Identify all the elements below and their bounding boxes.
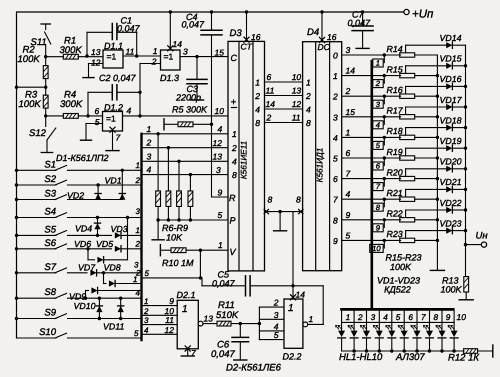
switch S9 xyxy=(17,318,57,320)
ground R13 xyxy=(459,299,473,301)
switch S6 xyxy=(17,248,57,250)
wire D2.1 pin13 output xyxy=(198,321,203,326)
wire R10 node down to net5 wire xyxy=(199,250,201,278)
decoder D4 K561ID1 box xyxy=(303,42,342,271)
svg-text:S9: S9 xyxy=(44,308,56,319)
node VD19 cathode to output bus xyxy=(464,147,467,150)
node R20 to ground bus xyxy=(436,177,439,180)
node VD22 cathode to output bus xyxy=(464,208,467,211)
svg-text:1: 1 xyxy=(306,77,311,87)
svg-text:S3: S3 xyxy=(44,189,56,200)
svg-text:10: 10 xyxy=(457,312,467,322)
svg-text:300K: 300K xyxy=(60,99,83,110)
ground resistor bus xyxy=(430,269,444,271)
svg-text:6: 6 xyxy=(267,72,272,82)
svg-text:4: 4 xyxy=(147,165,152,175)
svg-text:+Uп: +Uп xyxy=(412,9,434,21)
svg-text:100K: 100K xyxy=(18,54,41,65)
tag box 8 into bundle xyxy=(383,199,385,207)
wire P input common to D3 pin5 xyxy=(158,219,228,221)
wire D2.2 input pin4 xyxy=(259,330,284,332)
svg-text:2: 2 xyxy=(135,176,141,185)
resistor R6 10K xyxy=(157,134,159,191)
svg-text:3: 3 xyxy=(274,310,279,320)
svg-text:S5: S5 xyxy=(44,224,56,235)
svg-text:8: 8 xyxy=(433,313,438,322)
svg-text:КД522: КД522 xyxy=(384,285,411,295)
svg-text:6: 6 xyxy=(333,174,338,184)
node VD21 cathode to output bus xyxy=(464,188,467,191)
svg-text:9: 9 xyxy=(446,313,451,322)
node VD11 S9 tap xyxy=(119,317,122,320)
svg-text:VD10: VD10 xyxy=(74,301,96,311)
ground D1.2 pin5 xyxy=(81,139,92,141)
svg-text:4: 4 xyxy=(218,124,223,134)
tag box 2 into bundle xyxy=(383,76,385,84)
svg-text:4: 4 xyxy=(232,157,237,167)
node R16 to ground bus xyxy=(436,95,439,98)
node S8 VD9 branch xyxy=(84,297,87,300)
svg-text:VD14: VD14 xyxy=(440,33,462,43)
svg-text:2: 2 xyxy=(357,313,363,322)
node VD17 cathode to output bus xyxy=(464,105,467,108)
capacitor C4 0,047 xyxy=(211,12,213,30)
svg-text:4: 4 xyxy=(127,106,132,116)
node row6 tag junction xyxy=(383,156,386,159)
wire D3 out1 pin6 to D4 pin10 xyxy=(265,81,303,83)
svg-text:R12 1К: R12 1К xyxy=(448,353,480,364)
svg-text:5: 5 xyxy=(396,313,401,322)
LED HL6 AL307 xyxy=(403,322,405,330)
node row4 tag junction xyxy=(383,115,386,118)
node rail junction D3 pin16 xyxy=(245,10,248,13)
LED HL2 AL307 xyxy=(353,322,355,330)
dynamic marker D4 pin16 xyxy=(319,37,324,42)
wire +Un top power rail xyxy=(17,11,405,13)
svg-text:6: 6 xyxy=(408,313,413,322)
capacitor C1 0,047 feedback xyxy=(86,32,88,56)
wire diode cathode output bus xyxy=(465,45,467,276)
node frame bus tap xyxy=(15,86,18,89)
switch S7 xyxy=(17,272,57,274)
svg-text:4: 4 xyxy=(333,133,338,143)
svg-text:4: 4 xyxy=(376,120,380,129)
svg-text:2: 2 xyxy=(151,57,157,67)
node S2 VD2 tap xyxy=(96,183,99,186)
gate D2.1 K561LE6 xyxy=(177,300,198,349)
svg-text:5: 5 xyxy=(145,269,150,278)
bus bundle horizontal bar xyxy=(342,308,454,311)
ground C3 xyxy=(191,99,204,101)
resistor R7 10K xyxy=(167,148,169,191)
svg-text:10: 10 xyxy=(372,244,381,253)
svg-text:2: 2 xyxy=(146,138,152,148)
svg-text:1: 1 xyxy=(309,314,314,324)
svg-text:1: 1 xyxy=(182,304,188,315)
node C3 tap xyxy=(195,55,198,58)
tag box 10 into bundle xyxy=(383,240,385,248)
counter D3 K561IE11 box xyxy=(228,41,265,271)
node R23 to ground bus xyxy=(436,239,439,242)
node R21 to ground bus xyxy=(436,198,439,201)
node row2 tag junction xyxy=(383,74,386,77)
terminal +Un xyxy=(404,9,409,14)
svg-text:1: 1 xyxy=(346,313,351,322)
wire D2.1 input pin11 from net 3 xyxy=(142,324,178,326)
svg-text:К561ИЕ11: К561ИЕ11 xyxy=(239,141,248,179)
svg-text:11: 11 xyxy=(292,112,301,122)
svg-text:=1: =1 xyxy=(106,114,116,124)
wire D2.1 input pin12 from net 4 xyxy=(142,333,178,335)
node VD10 S9 tap xyxy=(98,317,101,320)
ground D1.2 pin7 xyxy=(106,150,119,152)
node row3 tag junction xyxy=(383,95,386,98)
wire D1.3 pin3 output to D3 C xyxy=(180,56,228,58)
wire LED cathode rail xyxy=(342,350,464,352)
ground R6-R9 common xyxy=(157,220,159,239)
dynamic marker D1.2 pin7 xyxy=(110,127,115,132)
node VD15 cathode to output bus xyxy=(464,64,467,67)
node S8 bus tap xyxy=(15,297,18,300)
node rail junction C7 xyxy=(361,10,364,13)
resistor R9 10K xyxy=(189,175,191,191)
svg-text:1: 1 xyxy=(136,161,140,170)
node R5 to C4 column xyxy=(210,123,213,126)
LED HL3 AL307 xyxy=(366,322,368,330)
svg-text:16: 16 xyxy=(251,32,261,42)
svg-text:0: 0 xyxy=(333,51,338,61)
svg-text:12: 12 xyxy=(91,58,101,68)
svg-text:VD5: VD5 xyxy=(96,239,113,249)
svg-text:13: 13 xyxy=(213,152,223,162)
svg-text:C2 0,047: C2 0,047 xyxy=(99,73,137,83)
svg-text:VD1: VD1 xyxy=(105,176,122,186)
svg-text:2: 2 xyxy=(345,86,351,96)
node VD18 cathode to output bus xyxy=(464,126,467,129)
svg-text:8: 8 xyxy=(268,195,273,205)
node R1-S11-R2 junction xyxy=(44,55,47,58)
svg-text:VD21: VD21 xyxy=(440,177,462,187)
wire D3 pin16 from rail xyxy=(246,12,248,41)
svg-text:3: 3 xyxy=(183,47,188,57)
svg-text:3: 3 xyxy=(371,313,376,322)
wire R input D3 pin9 xyxy=(212,196,229,198)
svg-text:D4: D4 xyxy=(307,27,319,38)
svg-text:2: 2 xyxy=(135,239,141,248)
svg-text:0,047: 0,047 xyxy=(212,279,236,289)
svg-text:11: 11 xyxy=(165,315,174,325)
svg-text:4: 4 xyxy=(346,189,351,199)
svg-text:4: 4 xyxy=(383,313,388,322)
svg-text:4: 4 xyxy=(144,326,149,335)
svg-text:S10: S10 xyxy=(39,327,57,338)
svg-text:R6-R9: R6-R9 xyxy=(162,223,188,233)
node C2 right to D1.2 out net xyxy=(138,91,141,94)
gate D2.2 K561LE6 xyxy=(284,299,303,348)
svg-text:3: 3 xyxy=(147,151,152,161)
svg-text:15: 15 xyxy=(215,48,225,58)
svg-text:VD9: VD9 xyxy=(69,291,86,301)
node S3 bus tap xyxy=(15,198,18,201)
svg-text:VD17: VD17 xyxy=(440,95,463,105)
svg-text:R15-R23: R15-R23 xyxy=(385,253,421,263)
svg-text:1: 1 xyxy=(346,127,351,137)
svg-text:11: 11 xyxy=(126,47,135,57)
LED HL5 AL307 xyxy=(391,322,393,330)
node Un junction xyxy=(464,243,467,246)
wire D2.2 feedback loop xyxy=(322,286,324,325)
wire D3 out8 pin2 to D4 pin11 xyxy=(265,122,303,124)
svg-text:2: 2 xyxy=(231,143,237,153)
wire weight net 2 to D3 pin12 xyxy=(142,147,229,149)
LED HL10 AL307 xyxy=(453,322,455,330)
node ground tap xyxy=(278,210,281,213)
svg-text:11: 11 xyxy=(266,85,275,95)
svg-text:0,047: 0,047 xyxy=(211,349,235,360)
node S2 bus tap xyxy=(15,183,18,186)
svg-text:VD3: VD3 xyxy=(111,224,128,234)
op-amp gate D1.2 K561LP2 xyxy=(103,112,123,132)
node VD23 cathode to output bus xyxy=(464,229,467,232)
node S7 branch xyxy=(102,271,105,274)
node D1.1 out junction xyxy=(135,54,138,57)
svg-text:R5 300K: R5 300K xyxy=(172,105,208,115)
node R19 to ground bus xyxy=(436,156,439,159)
svg-text:S6: S6 xyxy=(44,238,56,249)
LED HL4 AL307 xyxy=(378,322,380,330)
node R11 to C6 xyxy=(239,322,242,325)
op-amp gate D1.3 K561LP2 xyxy=(161,50,181,70)
wire D1.2 out to D3 pin10 xyxy=(140,115,228,117)
svg-text:S7: S7 xyxy=(44,262,56,273)
wire frame to R2/R3 node xyxy=(17,86,46,88)
svg-text:3: 3 xyxy=(216,165,221,175)
node row10 tag junction xyxy=(383,239,386,242)
svg-text:5: 5 xyxy=(134,329,139,338)
terminal R12 right xyxy=(492,345,494,357)
svg-text:16: 16 xyxy=(327,32,337,42)
svg-text:8: 8 xyxy=(306,118,311,128)
LED HL7 AL307 xyxy=(416,322,418,330)
svg-text:HL1-HL10: HL1-HL10 xyxy=(339,352,383,363)
switch S2 xyxy=(17,184,57,186)
node rail junction D1.3 pin14 xyxy=(169,10,172,13)
svg-text:7: 7 xyxy=(333,195,338,205)
svg-text:2: 2 xyxy=(332,92,338,102)
bus matrix bundle vertical xyxy=(140,134,142,340)
capacitor C6 0,047 xyxy=(239,324,241,338)
diode VD6 KD522 branch wire xyxy=(87,249,89,260)
wire D1.2 pin4 output xyxy=(123,115,141,117)
svg-text:R10 1M: R10 1M xyxy=(162,258,194,268)
tag cells 1-10 at LEDs xyxy=(342,321,455,323)
svg-text:1: 1 xyxy=(218,240,223,250)
svg-text:8: 8 xyxy=(333,215,338,225)
svg-text:2: 2 xyxy=(254,91,260,101)
wire left frame bus xyxy=(16,12,18,338)
node R10 output junction xyxy=(199,249,202,252)
node S9 bus tap xyxy=(15,317,18,320)
terminal Un output xyxy=(466,244,482,246)
svg-text:=1: =1 xyxy=(107,52,117,62)
svg-text:1: 1 xyxy=(232,129,237,139)
capacitor C3 2200p xyxy=(196,57,198,79)
svg-text:13: 13 xyxy=(292,85,302,95)
svg-text:1: 1 xyxy=(153,46,158,56)
svg-text:12: 12 xyxy=(292,99,302,109)
node VD11 top tap xyxy=(119,297,122,300)
switch S1 xyxy=(17,169,57,171)
svg-text:3: 3 xyxy=(144,316,149,325)
dynamic marker D2.1 pin7 xyxy=(185,346,190,351)
svg-text:13: 13 xyxy=(91,47,101,57)
dynamic marker D3 pin16 xyxy=(244,37,249,42)
svg-text:S2: S2 xyxy=(44,174,56,185)
switch S8 xyxy=(17,297,57,299)
svg-text:4: 4 xyxy=(306,104,311,114)
wire D2.1 input pin10 from net 2 xyxy=(142,314,178,316)
svg-text:10: 10 xyxy=(215,106,225,116)
wire D1.2 pin7 xyxy=(112,131,114,150)
svg-text:14: 14 xyxy=(173,39,183,49)
svg-text:7: 7 xyxy=(116,133,121,143)
node R22 to ground bus xyxy=(436,218,439,221)
node R2-R3 junction xyxy=(44,86,47,89)
svg-text:100K: 100K xyxy=(390,262,412,272)
svg-text:D3: D3 xyxy=(230,28,243,39)
svg-text:CT: CT xyxy=(241,42,253,52)
node C5 net to pin14 xyxy=(291,284,294,287)
node net5 R10 junction xyxy=(199,276,202,279)
svg-text:D1.2: D1.2 xyxy=(104,103,123,113)
svg-text:АЛ307: АЛ307 xyxy=(395,352,425,363)
wire weight net 3 to D3 pin13 xyxy=(142,160,229,162)
svg-text:S4: S4 xyxy=(44,207,56,218)
svg-text:VD16: VD16 xyxy=(440,74,462,84)
svg-text:D1.3: D1.3 xyxy=(160,73,179,83)
svg-text:К561ИД1: К561ИД1 xyxy=(316,148,325,183)
svg-text:8: 8 xyxy=(255,118,260,128)
svg-text:1: 1 xyxy=(144,297,148,306)
switch S10 xyxy=(17,337,57,339)
svg-text:0,047: 0,047 xyxy=(182,20,206,30)
svg-text:8: 8 xyxy=(232,170,237,180)
node VD10 top tap xyxy=(98,297,101,300)
svg-text:5: 5 xyxy=(274,330,279,340)
svg-text:VD11: VD11 xyxy=(103,322,124,332)
svg-text:7: 7 xyxy=(421,313,426,322)
node S6 branch xyxy=(86,247,89,250)
tag box 9 into bundle xyxy=(383,220,385,228)
node R15 to ground bus xyxy=(436,74,439,77)
node row1 tag junction xyxy=(383,53,386,56)
wire D2.1 input pin9 from net 1 xyxy=(142,305,178,307)
svg-text:1: 1 xyxy=(147,124,152,134)
svg-text:VD18: VD18 xyxy=(440,115,462,125)
svg-text:C: C xyxy=(231,53,238,63)
wire D1.3 pin14 from rail xyxy=(169,12,171,50)
node D1.1 pin13 junction xyxy=(85,54,88,57)
node row7 tag junction xyxy=(383,177,386,180)
wire D2.2 input pin5 xyxy=(259,339,284,341)
svg-text:10K: 10K xyxy=(166,233,183,243)
svg-text:2: 2 xyxy=(143,307,149,316)
svg-text:VD22: VD22 xyxy=(440,198,462,208)
svg-text:3: 3 xyxy=(346,45,351,55)
svg-text:5: 5 xyxy=(333,154,338,164)
svg-text:7: 7 xyxy=(346,169,351,179)
ground D1.1 pin12 xyxy=(83,77,94,79)
node VD20 cathode to output bus xyxy=(464,167,467,170)
svg-text:13: 13 xyxy=(204,314,214,324)
svg-text:14: 14 xyxy=(266,99,276,109)
tag box 1 into bundle xyxy=(383,55,385,63)
node R17 to ground bus xyxy=(436,115,439,118)
wire D3 out2 pin11 to D4 pin13 xyxy=(265,95,303,97)
tag box 4 into bundle xyxy=(383,117,385,125)
svg-text:1: 1 xyxy=(133,275,137,284)
wire D1.1 pin11 output xyxy=(123,55,161,57)
svg-text:VD20: VD20 xyxy=(440,157,462,167)
node row9 tag junction xyxy=(383,218,386,221)
node S4 bus tap xyxy=(15,216,18,219)
svg-text:VD23: VD23 xyxy=(440,218,462,228)
node row8 tag junction xyxy=(383,198,386,201)
tag box 7 into bundle xyxy=(383,179,385,187)
node S1 VD1 tap xyxy=(121,169,124,172)
node S5 bus tap xyxy=(15,234,18,237)
svg-text:5: 5 xyxy=(218,210,223,220)
svg-text:DC: DC xyxy=(318,42,331,52)
wire D3 out4 pin14 to D4 pin12 xyxy=(265,108,303,110)
wire D2.1 pin7 xyxy=(187,349,189,356)
svg-text:1: 1 xyxy=(288,303,294,314)
svg-text:VD15: VD15 xyxy=(440,54,462,64)
node S6 bus tap xyxy=(15,247,18,250)
svg-text:1: 1 xyxy=(136,226,140,235)
svg-text:+: + xyxy=(231,97,237,108)
svg-text:VD4: VD4 xyxy=(75,224,92,234)
svg-text:VD19: VD19 xyxy=(440,136,462,146)
svg-text:2: 2 xyxy=(266,112,272,122)
svg-text:D2-К561ЛЕ6: D2-К561ЛЕ6 xyxy=(226,363,282,374)
svg-text:10: 10 xyxy=(292,72,302,82)
node rail junction D4 pin16 xyxy=(320,10,323,13)
svg-text:D1-К561ЛП2: D1-К561ЛП2 xyxy=(56,153,109,163)
svg-text:9: 9 xyxy=(346,210,351,220)
svg-text:R: R xyxy=(229,193,236,203)
node R11 wire to input bus xyxy=(258,322,261,325)
node VD16 cathode to output bus xyxy=(464,85,467,88)
svg-text:D2.1: D2.1 xyxy=(177,290,196,300)
svg-text:S8: S8 xyxy=(44,287,56,298)
ground C7 xyxy=(356,47,369,49)
capacitor C7 0,047 xyxy=(362,12,364,26)
wire weight net 1 to D3 pin4 xyxy=(142,133,229,135)
ground C6 xyxy=(234,359,247,361)
svg-text:VD2: VD2 xyxy=(67,190,84,200)
svg-text:2: 2 xyxy=(305,91,311,101)
svg-text:8: 8 xyxy=(296,195,301,205)
LED HL1 AL307 xyxy=(341,322,343,330)
svg-text:D2.2: D2.2 xyxy=(283,352,302,362)
LED HL9 AL307 xyxy=(441,322,443,330)
svg-text:P: P xyxy=(230,215,236,225)
svg-text:9: 9 xyxy=(218,188,223,198)
node S7 bus tap xyxy=(15,271,18,274)
wire D2.2 pin14 from ground net xyxy=(292,212,294,299)
svg-text:1: 1 xyxy=(255,77,260,87)
